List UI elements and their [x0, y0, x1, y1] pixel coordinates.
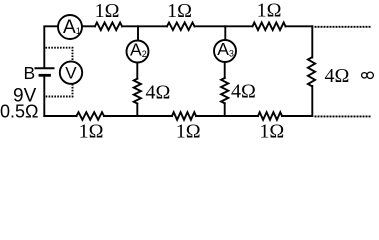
svg-text:B: B	[24, 63, 36, 83]
resistor 4ohm branch A2	[134, 79, 141, 104]
resistor 1ohm top3	[253, 23, 286, 31]
label infinity	[362, 72, 374, 78]
wire bottom right	[282, 115, 312, 117]
wire bottom node A	[104, 115, 172, 117]
resistor 1ohm bottom3	[258, 112, 282, 120]
ammeter A1	[58, 15, 82, 39]
svg-text:1Ω: 1Ω	[259, 120, 284, 142]
dotted continuation bottom right	[315, 115, 372, 117]
dotted continuation top right	[315, 26, 372, 28]
wire 4ohm to bottom	[136, 104, 138, 117]
svg-text:V: V	[65, 64, 77, 83]
voltmeter V	[60, 61, 82, 83]
ammeter A2	[127, 41, 149, 63]
wire right branch upper	[311, 26, 313, 57]
wire top-left from battery to A1	[44, 26, 58, 67]
svg-text:4Ω: 4Ω	[146, 81, 171, 103]
wire right branch lower	[311, 86, 313, 116]
wire top node B	[195, 25, 253, 27]
resistor 1ohm bottom1	[77, 112, 105, 120]
svg-text:1Ω: 1Ω	[167, 0, 192, 22]
wire bottom left	[44, 115, 76, 117]
resistor 4ohm branch A3	[221, 78, 228, 103]
wire A1 to R1	[82, 25, 95, 27]
svg-text:1Ω: 1Ω	[257, 0, 282, 22]
resistor 1ohm bottom2	[172, 112, 196, 120]
ammeter A3	[214, 40, 236, 62]
svg-text:1Ω: 1Ω	[176, 120, 201, 142]
resistor 1ohm top1	[95, 23, 122, 31]
wire branch A2 upper	[137, 26, 139, 40]
dotted voltmeter lead bottom	[46, 84, 73, 97]
wire top node A	[122, 25, 167, 27]
wire battery to bottom	[43, 75, 45, 116]
dotted voltmeter lead top	[46, 48, 73, 62]
wire top right	[286, 25, 313, 27]
wire A3 to 4ohm	[224, 62, 226, 78]
wire 4ohm A3 to bottom	[224, 103, 226, 116]
resistor 4ohm right	[308, 58, 315, 87]
svg-text:4Ω: 4Ω	[325, 65, 350, 87]
wire branch A3 upper	[224, 26, 226, 40]
resistor 1ohm top2	[167, 23, 195, 31]
wire A2 to 4ohm	[136, 63, 138, 79]
wire bottom node B	[196, 115, 258, 117]
battery B cell short plate	[40, 74, 50, 77]
svg-text:1Ω: 1Ω	[79, 120, 104, 142]
svg-text:0.5Ω: 0.5Ω	[0, 101, 38, 121]
svg-text:1Ω: 1Ω	[95, 0, 120, 22]
battery B cell long plate	[36, 67, 54, 69]
svg-text:4Ω: 4Ω	[231, 81, 256, 103]
